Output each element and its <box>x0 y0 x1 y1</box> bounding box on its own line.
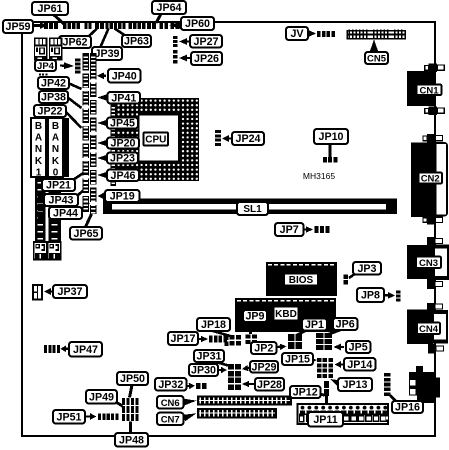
label JP37 <box>53 285 87 298</box>
label CN5 <box>365 52 388 64</box>
CPU label <box>144 133 169 146</box>
wire JP12 leader <box>319 394 325 396</box>
wire JP6 leader <box>328 330 340 335</box>
svg-text:JP6: JP6 <box>336 319 355 331</box>
label JP12 <box>290 386 321 398</box>
svg-text:1: 1 <box>36 167 42 178</box>
svg-text:K: K <box>35 156 43 167</box>
jumper JP18 block <box>230 335 235 340</box>
svg-text:JP19: JP19 <box>110 191 135 203</box>
jumper column left of JP16 <box>384 373 391 377</box>
wire JP63 leader <box>115 29 127 37</box>
SIMM socket right bar <box>64 118 70 177</box>
label CN7 <box>157 413 184 426</box>
svg-text:JP63: JP63 <box>124 36 149 48</box>
wire JP18 leader <box>213 331 232 337</box>
svg-text:JP24: JP24 <box>236 133 261 145</box>
label JP19 <box>105 190 140 202</box>
wire JP44 leader <box>81 203 89 211</box>
wire JP24 wedge <box>226 137 232 139</box>
svg-text:JP22: JP22 <box>38 106 63 118</box>
wire JP4 leader <box>60 64 70 67</box>
label JP6 <box>333 318 358 330</box>
label JP9 <box>243 310 267 322</box>
jumper JP3 <box>344 275 349 279</box>
jumper column C left of CPU <box>111 104 117 186</box>
label JP60 <box>181 17 214 30</box>
wire CN5 leader <box>370 40 379 53</box>
wire JP13 wedge <box>330 379 341 387</box>
label JP20 <box>107 138 139 149</box>
wire JP3 leader <box>349 273 356 278</box>
jumper JP26 <box>173 50 178 54</box>
jumper JP51 <box>98 414 101 421</box>
label JP13 <box>338 378 372 391</box>
connector CN1 <box>429 64 438 73</box>
jumper JP37 <box>32 284 43 301</box>
jumper JP7 block <box>315 226 319 233</box>
jumper JP6/JP5 block <box>316 333 323 338</box>
jumper column A <box>83 53 89 212</box>
svg-text:K: K <box>52 156 60 167</box>
label JP15 <box>282 353 313 365</box>
wire JP49 leader <box>114 401 123 406</box>
wire JP38 leader <box>67 97 82 108</box>
wire JP43 leader <box>77 187 87 196</box>
jumper small left of JP18 <box>225 336 229 341</box>
label SL1 <box>237 202 268 215</box>
label JP44 <box>49 207 82 219</box>
label JP16 <box>392 401 423 413</box>
wire CN6 wedge <box>184 399 197 406</box>
wire JP46 wedge <box>97 171 108 178</box>
svg-text:B: B <box>35 121 42 132</box>
wire JP19 wedge <box>100 195 105 197</box>
wire JP45 wedge <box>97 119 108 126</box>
label JP30 <box>189 364 218 376</box>
wire JP48 leader <box>129 422 132 434</box>
jumper JP27 <box>173 36 178 39</box>
connector CN7 <box>197 408 277 419</box>
label JP62 <box>59 36 91 48</box>
jumper JP8 <box>396 291 401 294</box>
svg-text:JP45: JP45 <box>110 118 135 130</box>
svg-text:JP44: JP44 <box>53 208 78 220</box>
wire JP21 leader <box>73 173 84 181</box>
wire JP60 leader <box>170 21 182 29</box>
wire JV leader <box>308 32 312 34</box>
jumper left of JP44 <box>38 209 43 212</box>
jumper JV block <box>317 31 321 37</box>
svg-text:CPU: CPU <box>145 135 166 146</box>
JP11 end notch right <box>386 416 388 419</box>
connector CN6 <box>197 395 292 405</box>
svg-text:0: 0 <box>53 167 59 178</box>
label CN1 <box>417 85 442 96</box>
label JP11 <box>308 412 343 427</box>
connector CN5 <box>347 31 405 39</box>
svg-text:JP13: JP13 <box>343 379 368 391</box>
svg-text:JP23: JP23 <box>110 153 135 165</box>
svg-text:JP26: JP26 <box>194 53 219 65</box>
wire JP50 leader <box>130 385 133 398</box>
svg-text:JP50: JP50 <box>120 373 145 385</box>
jumper dots under JP4 <box>39 73 41 75</box>
BIOS chip <box>266 262 337 296</box>
top jumper header row J1 <box>44 23 48 29</box>
svg-text:JP5: JP5 <box>349 342 368 354</box>
svg-text:JP27: JP27 <box>194 36 219 48</box>
label JP31 <box>194 350 224 362</box>
svg-text:BIOS: BIOS <box>289 275 314 286</box>
wire JP62 leader <box>88 29 97 38</box>
svg-text:JP49: JP49 <box>89 391 114 403</box>
label JP32 <box>155 378 187 391</box>
wire JP15 wedge <box>309 357 317 364</box>
jumper JP17 block <box>209 336 213 343</box>
svg-text:JP1: JP1 <box>305 319 324 331</box>
label JP63 <box>122 35 151 47</box>
svg-text:JP9: JP9 <box>245 311 264 323</box>
wire JP40 wedge <box>100 75 106 77</box>
label JV <box>286 27 308 40</box>
label CN6 <box>157 396 184 409</box>
label JP22 <box>34 105 66 117</box>
wire JP17 leader <box>198 338 203 340</box>
label JP4 <box>35 60 56 71</box>
svg-text:JP61: JP61 <box>38 3 63 15</box>
label JP38 <box>39 91 68 103</box>
svg-text:N: N <box>52 144 59 155</box>
jumper grid JP48/49/50 <box>122 398 125 405</box>
wire JP31 leader <box>216 362 230 366</box>
label JP27 <box>190 35 222 48</box>
label JP23 <box>107 153 138 164</box>
wire CN7 wedge <box>183 413 197 421</box>
svg-text:CN4: CN4 <box>419 324 439 335</box>
svg-text:JV: JV <box>290 28 304 40</box>
jumper below grid (JP13) <box>324 381 329 388</box>
svg-text:JP17: JP17 <box>171 333 196 345</box>
svg-text:JP11: JP11 <box>313 414 337 426</box>
connector CN4 <box>427 303 435 311</box>
connector CN2 <box>427 134 436 143</box>
wire JP39 leader <box>100 29 109 49</box>
svg-text:JP46: JP46 <box>111 170 136 182</box>
oscillator X2 <box>49 38 63 61</box>
SIMM strip lower right <box>49 177 62 242</box>
wire JP23 wedge <box>97 154 108 161</box>
wire JP42 leader <box>68 83 82 89</box>
label JP40 <box>108 69 141 83</box>
label JP3 <box>353 262 381 275</box>
svg-text:SL1: SL1 <box>243 204 262 215</box>
svg-text:JP65: JP65 <box>74 228 99 240</box>
wire JP29 wedge <box>246 368 250 369</box>
component below BANK0 <box>48 242 61 260</box>
label JP29 <box>250 361 278 373</box>
label JP18 <box>197 318 230 331</box>
wire JP64 leader <box>156 14 161 23</box>
CPU socket U1 <box>116 98 199 181</box>
wire JP1 leader <box>297 331 306 336</box>
wire JP22 leader <box>65 111 82 128</box>
svg-text:B: B <box>52 121 59 132</box>
label JP1 <box>302 319 327 331</box>
connector JP11 <box>298 404 389 424</box>
svg-text:CN6: CN6 <box>161 398 180 409</box>
SIMM strip lower left <box>35 177 46 242</box>
label JP48 <box>115 433 148 447</box>
svg-text:CN2: CN2 <box>421 174 440 185</box>
KBD chip <box>235 298 336 332</box>
jumper JP32 <box>196 383 201 389</box>
svg-text:JP20: JP20 <box>111 138 136 150</box>
svg-text:JP41: JP41 <box>111 92 136 104</box>
label JP59 <box>3 20 33 33</box>
svg-text:JP21: JP21 <box>46 180 71 192</box>
svg-text:JP62: JP62 <box>63 37 88 49</box>
svg-text:JP16: JP16 <box>395 402 420 414</box>
label JP47 <box>69 342 102 357</box>
jumper JP24 <box>215 130 221 133</box>
jumper JP10 block <box>323 157 327 163</box>
label JP2 <box>251 342 277 354</box>
wire JP10 leader <box>329 144 332 157</box>
label CN4 <box>417 323 440 335</box>
svg-text:MH3165: MH3165 <box>303 171 335 181</box>
svg-text:JP59: JP59 <box>6 21 31 33</box>
svg-text:JP31: JP31 <box>197 351 222 363</box>
SIMM socket BANK0 <box>48 118 63 177</box>
jumper JP4 block <box>75 59 81 62</box>
wire JP2 wedge <box>277 346 281 349</box>
svg-text:A: A <box>35 133 42 144</box>
svg-text:JP51: JP51 <box>57 411 82 423</box>
svg-text:A: A <box>52 133 59 144</box>
label JP14 <box>344 358 376 371</box>
svg-text:JP32: JP32 <box>158 379 183 391</box>
svg-text:JP14: JP14 <box>347 359 372 371</box>
svg-text:KBD: KBD <box>275 309 297 320</box>
label JP50 <box>117 372 148 385</box>
svg-text:JP64: JP64 <box>157 2 182 14</box>
svg-text:JP8: JP8 <box>361 290 380 302</box>
wire JP51 leader <box>85 415 91 417</box>
label JP39 <box>92 47 122 60</box>
svg-text:JP18: JP18 <box>201 319 226 331</box>
label JP51 <box>53 410 85 424</box>
component below BANK1 <box>34 242 47 260</box>
svg-text:JP42: JP42 <box>41 78 66 90</box>
svg-text:JP29: JP29 <box>252 361 277 373</box>
svg-text:JP37: JP37 <box>58 286 83 298</box>
wire JP7 leader <box>303 228 308 230</box>
label JP7 <box>275 223 304 236</box>
wire JP61 leader <box>54 15 64 24</box>
label JP21 <box>42 179 75 191</box>
svg-text:JP48: JP48 <box>119 434 144 446</box>
svg-text:JP12: JP12 <box>293 387 318 399</box>
wire JP27 leader <box>184 40 190 42</box>
label JP49 <box>86 390 117 404</box>
label JP24 <box>232 132 264 145</box>
component JP16 <box>416 366 423 373</box>
JP11 end notch left <box>300 416 304 422</box>
svg-text:CN7: CN7 <box>161 415 180 426</box>
svg-text:CN5: CN5 <box>367 54 387 65</box>
wire JP32 wedge <box>187 385 190 387</box>
label JP28 <box>255 378 284 391</box>
jumper JP1 block <box>288 334 294 341</box>
svg-text:JP30: JP30 <box>191 365 216 377</box>
svg-text:CN3: CN3 <box>419 258 438 269</box>
SIMM socket BANK1 <box>31 118 46 177</box>
jumper JP9/JP2 block <box>246 335 251 339</box>
label JP10 <box>314 129 348 144</box>
label JP42 <box>38 77 69 89</box>
svg-text:JP7: JP7 <box>280 224 299 236</box>
wire JP20 wedge <box>97 139 108 146</box>
wire JP59 leader <box>33 24 42 27</box>
label JP45 <box>107 118 138 129</box>
svg-text:CN1: CN1 <box>419 85 439 96</box>
wire JP65 leader <box>85 214 92 228</box>
label JP43 <box>44 194 78 206</box>
label JP17 <box>168 332 198 345</box>
jumper grid JP13/14/15 <box>317 358 322 362</box>
svg-text:JP39: JP39 <box>95 48 120 60</box>
label CN3 <box>416 257 441 269</box>
wire JP9 leader <box>251 322 253 334</box>
svg-text:JP15: JP15 <box>285 354 310 366</box>
label JP5 <box>346 341 371 353</box>
wire JP8 leader <box>384 294 390 297</box>
svg-text:JP3: JP3 <box>357 263 376 275</box>
svg-text:JP10: JP10 <box>319 131 344 143</box>
slot SL1 <box>103 199 397 215</box>
svg-text:JP47: JP47 <box>73 344 98 356</box>
wire JP47 leader <box>62 348 68 350</box>
wire JP41 wedge <box>97 94 108 101</box>
svg-text:JP60: JP60 <box>185 18 210 30</box>
label JP46 <box>107 170 139 182</box>
label JP61 <box>32 2 68 15</box>
jumper left of JP43 <box>38 196 43 199</box>
jumper column B <box>90 53 96 214</box>
svg-text:JP40: JP40 <box>112 70 137 82</box>
svg-text:JP43: JP43 <box>49 195 74 207</box>
wire JP16 leader <box>390 396 399 405</box>
svg-text:JP38: JP38 <box>41 92 66 104</box>
wire JP26 leader <box>184 57 191 59</box>
label JP8 <box>357 288 384 302</box>
jumper JP47 <box>44 345 47 353</box>
label CN2 <box>419 173 443 184</box>
svg-text:JP4: JP4 <box>37 61 55 72</box>
label JP26 <box>191 52 222 65</box>
label JP65 <box>70 227 102 240</box>
wire JP28 wedge <box>247 383 254 385</box>
wire JP5 wedge <box>339 346 344 348</box>
wire to JP11 <box>325 396 328 404</box>
label JP64 <box>152 1 186 14</box>
oscillator X1 <box>34 38 48 61</box>
svg-text:JP2: JP2 <box>254 343 273 355</box>
svg-text:N: N <box>35 144 42 155</box>
label JP41 <box>108 92 141 104</box>
wire JP30 wedge <box>219 369 223 371</box>
wire JP37 leader <box>48 290 53 292</box>
svg-text:JP28: JP28 <box>257 379 282 391</box>
jumper JP31/JP30 block <box>228 364 234 370</box>
connector CN3 <box>427 237 435 245</box>
wire JP14 wedge <box>340 363 344 365</box>
